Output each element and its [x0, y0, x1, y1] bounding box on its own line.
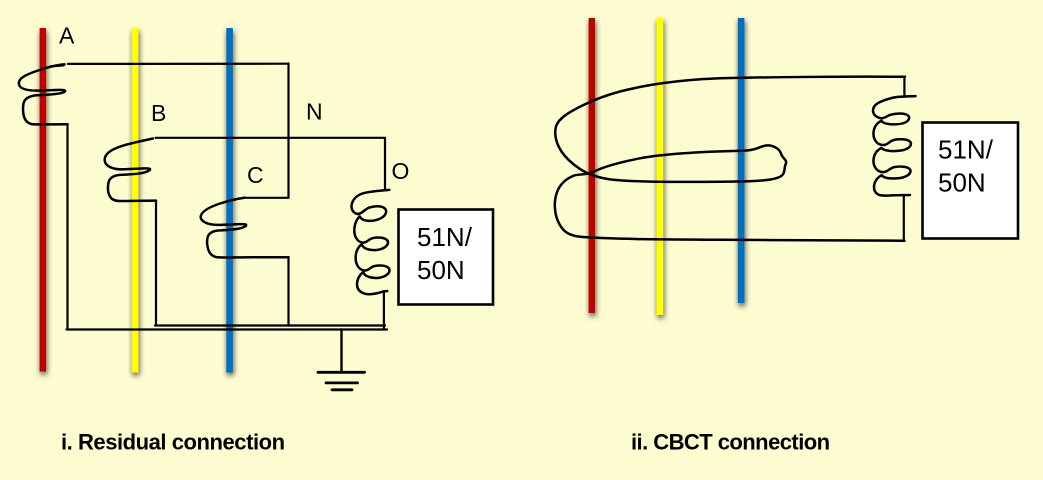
svg-text:ii. CBCT connection: ii. CBCT connection	[631, 430, 830, 455]
wire: CT B return lead down to bus	[155, 201, 157, 326]
wire: pen overlap dash at A coil start	[51, 65, 64, 66]
phase bar A right (red busbar)	[589, 18, 595, 313]
wire: relay coil O return down to bus	[383, 291, 385, 329]
CT coil B (around yellow bar)	[105, 139, 156, 202]
wire: relay feed drop from B wire to coil O	[384, 139, 386, 190]
relay coil O (51N/50N operating coil, left)	[352, 190, 390, 294]
wire: upper return bus	[155, 324, 385, 326]
svg-text:50N: 50N	[417, 255, 465, 285]
wire: CT A secondary top lead (A coil to vertical link)	[68, 63, 289, 65]
CT coil A (around red bar)	[19, 64, 68, 124]
svg-text:B: B	[151, 100, 166, 126]
svg-text:50N: 50N	[938, 168, 986, 198]
wire: lower return bus	[67, 328, 388, 330]
svg-text:51N/: 51N/	[938, 135, 994, 165]
phase bar A (red busbar)	[40, 28, 46, 372]
phase bar B (yellow busbar)	[132, 28, 139, 373]
phase bar C right (blue busbar)	[738, 18, 745, 303]
wire: CT A return lead down to bus	[66, 124, 68, 329]
svg-text:A: A	[59, 23, 75, 49]
CT coil C (around blue bar)	[201, 198, 289, 258]
relay box 51N/50N (left)	[399, 210, 494, 305]
wire: CBCT top lead down to relay coil	[903, 77, 905, 97]
svg-text:N: N	[306, 99, 323, 125]
wire: CT C return lead down to bus	[287, 257, 289, 325]
svg-text:O: O	[392, 158, 410, 184]
ground (earth symbol)	[340, 330, 342, 373]
CBCT core winding (loop around all three bars)	[555, 77, 905, 241]
wire: relay coil return down to CBCT bottom lead	[903, 195, 905, 240]
relay coil 51N/50N (right)	[873, 96, 915, 196]
svg-text:51N/: 51N/	[417, 222, 473, 252]
wire: CT B secondary top lead (B coil to relay coil O)	[156, 137, 386, 139]
svg-text:i. Residual connection: i. Residual connection	[61, 430, 285, 455]
phase bar C (blue busbar)	[226, 28, 233, 373]
wire: vertical link from A top wire down to C coil feed	[287, 64, 289, 198]
wire: C coil feed (from vertical link)	[247, 197, 289, 199]
relay box 51N/50N (right)	[923, 123, 1019, 239]
phase bar B right (yellow busbar)	[657, 18, 664, 315]
svg-text:C: C	[247, 162, 264, 188]
